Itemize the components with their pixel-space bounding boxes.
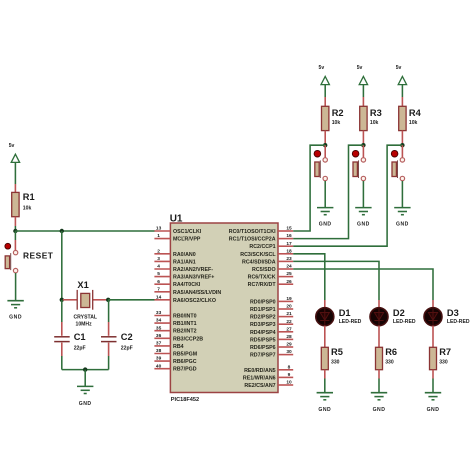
svg-text:MCLR/VPP: MCLR/VPP bbox=[173, 237, 201, 243]
wire D2 to R6 bbox=[378, 326, 380, 348]
svg-text:D3: D3 bbox=[447, 308, 459, 318]
svg-text:RA1/AN1: RA1/AN1 bbox=[173, 259, 196, 265]
wire 5V to R3 bbox=[362, 84, 364, 106]
svg-text:330: 330 bbox=[331, 359, 340, 365]
pin 29 RD6/PSP6 right bbox=[250, 342, 293, 351]
wire junction R2 to MCU pin bbox=[293, 145, 325, 231]
svg-text:5v: 5v bbox=[9, 143, 15, 149]
svg-text:20: 20 bbox=[286, 304, 292, 310]
wire capacitors to ground rail bbox=[62, 356, 109, 370]
pin 19 RD0/PSP0 right bbox=[250, 296, 293, 305]
svg-text:D1: D1 bbox=[339, 308, 351, 318]
pin 28 RD5/PSP5 right bbox=[250, 334, 293, 343]
pin 26 RC7/RX/DT right bbox=[248, 279, 294, 288]
svg-text:26: 26 bbox=[286, 279, 292, 285]
resistor R6 bbox=[376, 347, 398, 369]
pin 14 RA6/OSC2/CLKO left bbox=[154, 294, 216, 303]
svg-text:U1: U1 bbox=[170, 213, 183, 224]
LED D2 (LED-RED) bbox=[370, 308, 416, 326]
pin 8 RE0/RD/AN5 right bbox=[244, 364, 293, 373]
svg-text:RC4/SDI/SDA: RC4/SDI/SDA bbox=[242, 259, 276, 265]
svg-text:3: 3 bbox=[157, 256, 160, 262]
svg-text:RA5/AN4/SS/LVDIN: RA5/AN4/SS/LVDIN bbox=[173, 290, 221, 296]
svg-text:RC6/TX/CK: RC6/TX/CK bbox=[248, 275, 276, 281]
svg-text:RB6/PGC: RB6/PGC bbox=[173, 359, 197, 365]
svg-text:RB3/CCP2B: RB3/CCP2B bbox=[173, 336, 203, 342]
node B junction bbox=[60, 229, 64, 233]
svg-text:RB4: RB4 bbox=[173, 344, 184, 350]
svg-text:16: 16 bbox=[286, 233, 292, 239]
pin 16 RC1/T1OSI/CCP2A right bbox=[229, 233, 293, 242]
svg-text:GND: GND bbox=[79, 401, 92, 407]
button RESET bbox=[5, 231, 54, 273]
svg-text:2: 2 bbox=[157, 248, 160, 254]
svg-text:330: 330 bbox=[439, 359, 448, 365]
svg-text:24: 24 bbox=[286, 264, 292, 270]
svg-text:RB2/INT2: RB2/INT2 bbox=[173, 329, 197, 335]
node A junction bbox=[13, 229, 17, 233]
svg-text:RA3/AN3/VREF+: RA3/AN3/VREF+ bbox=[173, 275, 214, 281]
svg-text:18: 18 bbox=[286, 248, 292, 254]
wire RESET to ground bbox=[15, 273, 17, 301]
svg-text:RC3/SCK/SCL: RC3/SCK/SCL bbox=[240, 252, 276, 258]
svg-text:22: 22 bbox=[286, 319, 292, 325]
wire 5V to R2 bbox=[324, 84, 326, 106]
svg-text:30: 30 bbox=[286, 349, 292, 355]
svg-text:C2: C2 bbox=[121, 332, 133, 342]
pin 37 RB4 left bbox=[154, 341, 183, 350]
pin 18 RC3/SCK/SCL right bbox=[240, 248, 293, 257]
svg-text:GND: GND bbox=[427, 407, 440, 413]
wire R3 to junction bbox=[362, 131, 364, 146]
svg-text:LED-RED: LED-RED bbox=[447, 319, 470, 325]
LED D1 (LED-RED) bbox=[316, 308, 362, 326]
svg-text:OSC1/CLKI: OSC1/CLKI bbox=[173, 229, 202, 235]
svg-text:GND: GND bbox=[396, 222, 409, 228]
wire button R2 to ground bbox=[324, 181, 326, 208]
ground GND below R2 button bbox=[317, 208, 333, 228]
svg-text:RD7/PSP7: RD7/PSP7 bbox=[250, 353, 276, 359]
svg-text:X1: X1 bbox=[77, 280, 88, 290]
resistor R4 bbox=[399, 106, 422, 130]
resistor R2 bbox=[322, 106, 344, 130]
svg-text:R2: R2 bbox=[332, 108, 344, 118]
wire MCU pin to D2 bbox=[293, 261, 379, 307]
pin 24 RC5/SDO right bbox=[252, 264, 293, 273]
power 5V VCC1 bbox=[9, 143, 20, 163]
pin 30 RD7/PSP7 right bbox=[250, 349, 293, 358]
svg-text:10MHz: 10MHz bbox=[76, 322, 93, 328]
wire R6 to ground bbox=[378, 370, 380, 393]
resistor R3 bbox=[360, 106, 382, 130]
svg-text:RD5/PSP5: RD5/PSP5 bbox=[250, 337, 276, 343]
pin 27 RD4/PSP4 right bbox=[250, 326, 293, 335]
wire button R3 to ground bbox=[362, 181, 364, 208]
svg-text:RA6/OSC2/CLKO: RA6/OSC2/CLKO bbox=[173, 298, 216, 304]
svg-text:14: 14 bbox=[156, 294, 162, 300]
svg-text:RD1/PSP1: RD1/PSP1 bbox=[250, 307, 276, 313]
svg-text:5v: 5v bbox=[319, 65, 325, 71]
svg-text:21: 21 bbox=[286, 311, 292, 317]
pin 22 RD3/PSP3 right bbox=[250, 319, 293, 328]
svg-text:R7: R7 bbox=[439, 347, 451, 357]
wire R4 to junction bbox=[401, 131, 403, 146]
pin 39 RB6/PGC left bbox=[154, 356, 196, 365]
svg-text:1: 1 bbox=[157, 233, 160, 239]
svg-text:38: 38 bbox=[156, 348, 162, 354]
svg-text:RB7/PGD: RB7/PGD bbox=[173, 367, 197, 373]
pin 38 RB5/PGM left bbox=[154, 348, 197, 357]
node junction R3 bbox=[361, 143, 365, 147]
button SW-R2 bbox=[314, 145, 327, 181]
svg-text:5: 5 bbox=[157, 271, 160, 277]
svg-text:7: 7 bbox=[157, 286, 160, 292]
svg-text:D2: D2 bbox=[393, 308, 405, 318]
svg-text:10k: 10k bbox=[409, 120, 418, 126]
ground GND below R5 bbox=[317, 393, 333, 414]
svg-text:RB5/PGM: RB5/PGM bbox=[173, 352, 198, 358]
pin 7 RA5/AN4/SS/LVDIN left bbox=[154, 286, 221, 295]
svg-text:10k: 10k bbox=[370, 120, 379, 126]
pin 17 RC2/CCP1 right bbox=[249, 241, 293, 250]
button SW-R4 bbox=[391, 145, 404, 181]
pin 9 RE1/WR/AN6 right bbox=[243, 372, 293, 381]
svg-text:RC5/SDO: RC5/SDO bbox=[252, 267, 276, 273]
wire MCU pin to D3 bbox=[293, 269, 433, 308]
svg-text:13: 13 bbox=[156, 226, 162, 232]
svg-text:23: 23 bbox=[286, 256, 292, 262]
svg-text:RC0/T1OSO/T1CKI: RC0/T1OSO/T1CKI bbox=[229, 229, 276, 235]
svg-text:25: 25 bbox=[286, 271, 292, 277]
svg-text:22pF: 22pF bbox=[121, 345, 133, 351]
ground GND crystal bbox=[77, 386, 93, 407]
IC U1 PIC18F452 microcontroller bbox=[170, 213, 278, 402]
pin 2 RA0/AN0 left bbox=[154, 248, 195, 257]
ground GND reset bbox=[7, 301, 23, 321]
resistor R1 bbox=[12, 192, 35, 217]
wire node B down to crystal left bbox=[61, 231, 63, 300]
wire junction R4 to MCU pin bbox=[293, 145, 402, 246]
svg-text:15: 15 bbox=[286, 226, 292, 232]
pin 5 RA3/AN3/VREF+ left bbox=[154, 271, 214, 280]
wire D1 to R5 bbox=[324, 326, 326, 348]
svg-text:RD2/PSP2: RD2/PSP2 bbox=[250, 315, 276, 321]
svg-text:10: 10 bbox=[286, 380, 292, 386]
resistor R7 bbox=[430, 347, 452, 369]
svg-text:33: 33 bbox=[156, 310, 162, 316]
wire crystal right to OSC2 pin 14 bbox=[108, 299, 154, 301]
LED D3 (LED-RED) bbox=[424, 308, 470, 326]
svg-text:RB0/INT0: RB0/INT0 bbox=[173, 314, 197, 320]
svg-text:R6: R6 bbox=[385, 347, 397, 357]
pin 13 OSC1/CLKI left bbox=[154, 226, 201, 235]
svg-text:6: 6 bbox=[157, 279, 160, 285]
pin 6 RA4/T0CKI left bbox=[154, 279, 200, 288]
button SW-R3 bbox=[352, 145, 365, 181]
svg-text:36: 36 bbox=[156, 333, 162, 339]
pin 25 RC6/TX/CK right bbox=[248, 271, 294, 280]
capacitor C1 bbox=[54, 300, 85, 356]
svg-text:RC2/CCP1: RC2/CCP1 bbox=[249, 244, 275, 250]
ground GND below R6 bbox=[371, 393, 387, 414]
svg-text:5v: 5v bbox=[396, 65, 402, 71]
pin 35 RB2/INT2 left bbox=[154, 325, 196, 334]
svg-text:10k: 10k bbox=[332, 120, 341, 126]
capacitor C2 bbox=[101, 300, 133, 356]
svg-text:CRYSTAL: CRYSTAL bbox=[74, 315, 98, 321]
wire R7 to ground bbox=[432, 370, 434, 393]
svg-text:GND: GND bbox=[373, 407, 386, 413]
pin 40 RB7/PGD left bbox=[154, 363, 196, 372]
resistor R5 bbox=[321, 347, 343, 369]
svg-text:GND: GND bbox=[319, 222, 332, 228]
pin 36 RB3/CCP2B left bbox=[154, 333, 203, 342]
svg-text:37: 37 bbox=[156, 341, 162, 347]
ground GND below R7 bbox=[425, 393, 441, 414]
svg-text:8: 8 bbox=[288, 364, 291, 370]
power 5V above R3 bbox=[357, 65, 368, 85]
svg-text:RB1/INT1: RB1/INT1 bbox=[173, 321, 197, 327]
node E junction cap rail bbox=[83, 367, 87, 371]
svg-text:PIC18F452: PIC18F452 bbox=[171, 397, 199, 403]
svg-text:R3: R3 bbox=[370, 108, 382, 118]
svg-text:R5: R5 bbox=[331, 347, 343, 357]
pin 34 RB1/INT1 left bbox=[154, 318, 196, 327]
pin 20 RD1/PSP1 right bbox=[250, 304, 293, 313]
svg-text:LED-RED: LED-RED bbox=[339, 319, 362, 325]
svg-text:C1: C1 bbox=[74, 332, 86, 342]
wire 5V to R4 bbox=[401, 84, 403, 106]
node D junction crystal right bbox=[106, 298, 110, 302]
wire button R4 to ground bbox=[401, 181, 403, 208]
wire R5 to ground bbox=[324, 370, 326, 393]
pin 33 RB0/INT0 left bbox=[154, 310, 196, 319]
ground GND below R3 button bbox=[355, 208, 371, 228]
svg-text:RE2/CS/AN7: RE2/CS/AN7 bbox=[244, 383, 275, 389]
svg-text:5v: 5v bbox=[357, 65, 363, 71]
svg-text:9: 9 bbox=[288, 372, 291, 378]
wire junction R3 to MCU pin bbox=[293, 145, 363, 238]
svg-text:RC1/T1OSI/CCP2A: RC1/T1OSI/CCP2A bbox=[229, 237, 276, 243]
pin 3 RA1/AN1 left bbox=[154, 256, 195, 265]
svg-text:28: 28 bbox=[286, 334, 292, 340]
pin 10 RE2/CS/AN7 right bbox=[244, 380, 293, 389]
svg-text:RE0/RD/AN5: RE0/RD/AN5 bbox=[244, 368, 276, 374]
wire MCU pin to D1 bbox=[293, 254, 325, 308]
wire 5V to R1 bbox=[14, 162, 16, 192]
svg-text:GND: GND bbox=[357, 222, 370, 228]
svg-text:4: 4 bbox=[157, 264, 160, 270]
power 5V above R2 bbox=[319, 65, 330, 85]
svg-text:35: 35 bbox=[156, 325, 162, 331]
wire R2 to junction bbox=[324, 131, 326, 146]
svg-text:40: 40 bbox=[156, 363, 162, 369]
pin 23 RC4/SDI/SDA right bbox=[242, 256, 293, 265]
svg-text:R4: R4 bbox=[409, 108, 422, 118]
svg-text:LED-RED: LED-RED bbox=[393, 319, 416, 325]
wire R1 to node A bbox=[14, 217, 16, 231]
wire D3 to R7 bbox=[432, 326, 434, 348]
svg-text:GND: GND bbox=[318, 407, 331, 413]
svg-text:10k: 10k bbox=[23, 205, 32, 211]
svg-text:17: 17 bbox=[286, 241, 292, 247]
node junction R4 bbox=[400, 143, 404, 147]
svg-text:GND: GND bbox=[9, 314, 22, 320]
svg-text:330: 330 bbox=[385, 359, 394, 365]
svg-text:29: 29 bbox=[286, 342, 292, 348]
svg-text:RA2/AN2/VREF-: RA2/AN2/VREF- bbox=[173, 267, 213, 273]
svg-text:RD0/PSP0: RD0/PSP0 bbox=[250, 299, 276, 305]
ground GND below R4 button bbox=[394, 208, 410, 228]
pin 1 MCLR/VPP left bbox=[154, 233, 200, 242]
pin 21 RD2/PSP2 right bbox=[250, 311, 293, 320]
svg-text:RE1/WR/AN6: RE1/WR/AN6 bbox=[243, 375, 276, 381]
pin 4 RA2/AN2/VREF- left bbox=[154, 264, 213, 273]
wire rail to ground bbox=[84, 370, 86, 387]
svg-text:RD4/PSP4: RD4/PSP4 bbox=[250, 330, 276, 336]
svg-text:34: 34 bbox=[156, 318, 162, 324]
svg-text:RESET: RESET bbox=[23, 250, 54, 260]
svg-text:22pF: 22pF bbox=[74, 345, 86, 351]
svg-text:19: 19 bbox=[286, 296, 292, 302]
node junction R2 bbox=[323, 143, 327, 147]
svg-text:RD3/PSP3: RD3/PSP3 bbox=[250, 322, 276, 328]
svg-text:RA0/AN0: RA0/AN0 bbox=[173, 252, 196, 258]
svg-text:RA4/T0CKI: RA4/T0CKI bbox=[173, 282, 201, 288]
power 5V above R4 bbox=[396, 65, 407, 85]
node C junction crystal left bbox=[60, 298, 64, 302]
svg-text:39: 39 bbox=[156, 356, 162, 362]
wire node A to OSC1 pin 13 bbox=[15, 230, 154, 232]
svg-text:27: 27 bbox=[286, 326, 292, 332]
svg-text:R1: R1 bbox=[23, 192, 35, 202]
crystal X1 bbox=[63, 280, 108, 327]
svg-text:RC7/RX/DT: RC7/RX/DT bbox=[248, 282, 277, 288]
pin 15 RC0/T1OSO/T1CKI right bbox=[229, 226, 293, 235]
svg-text:RD6/PSP6: RD6/PSP6 bbox=[250, 345, 276, 351]
